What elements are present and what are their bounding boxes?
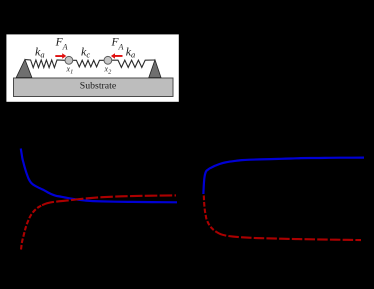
curve blue left (solid) xyxy=(21,149,177,203)
svg-text:Substrate: Substrate xyxy=(80,81,117,92)
spring kc xyxy=(73,60,104,67)
curve red left flat (dashed) xyxy=(42,195,176,205)
spring ka left xyxy=(25,60,65,68)
mass x2 xyxy=(104,56,112,64)
force arrow right (points left) xyxy=(111,53,123,59)
curve red left steep (dashed) xyxy=(21,205,42,249)
anchor left xyxy=(16,59,32,77)
curve red right steep (dashed) xyxy=(204,196,217,233)
curve red right flat (dashed) xyxy=(217,232,362,240)
force arrow left (points right) xyxy=(55,53,66,59)
anchor right xyxy=(149,60,161,78)
inset box xyxy=(6,34,179,102)
curve blue right (solid) xyxy=(203,158,364,194)
spring ka right xyxy=(112,60,156,67)
mass x1 xyxy=(65,56,73,64)
substrate xyxy=(14,78,174,97)
